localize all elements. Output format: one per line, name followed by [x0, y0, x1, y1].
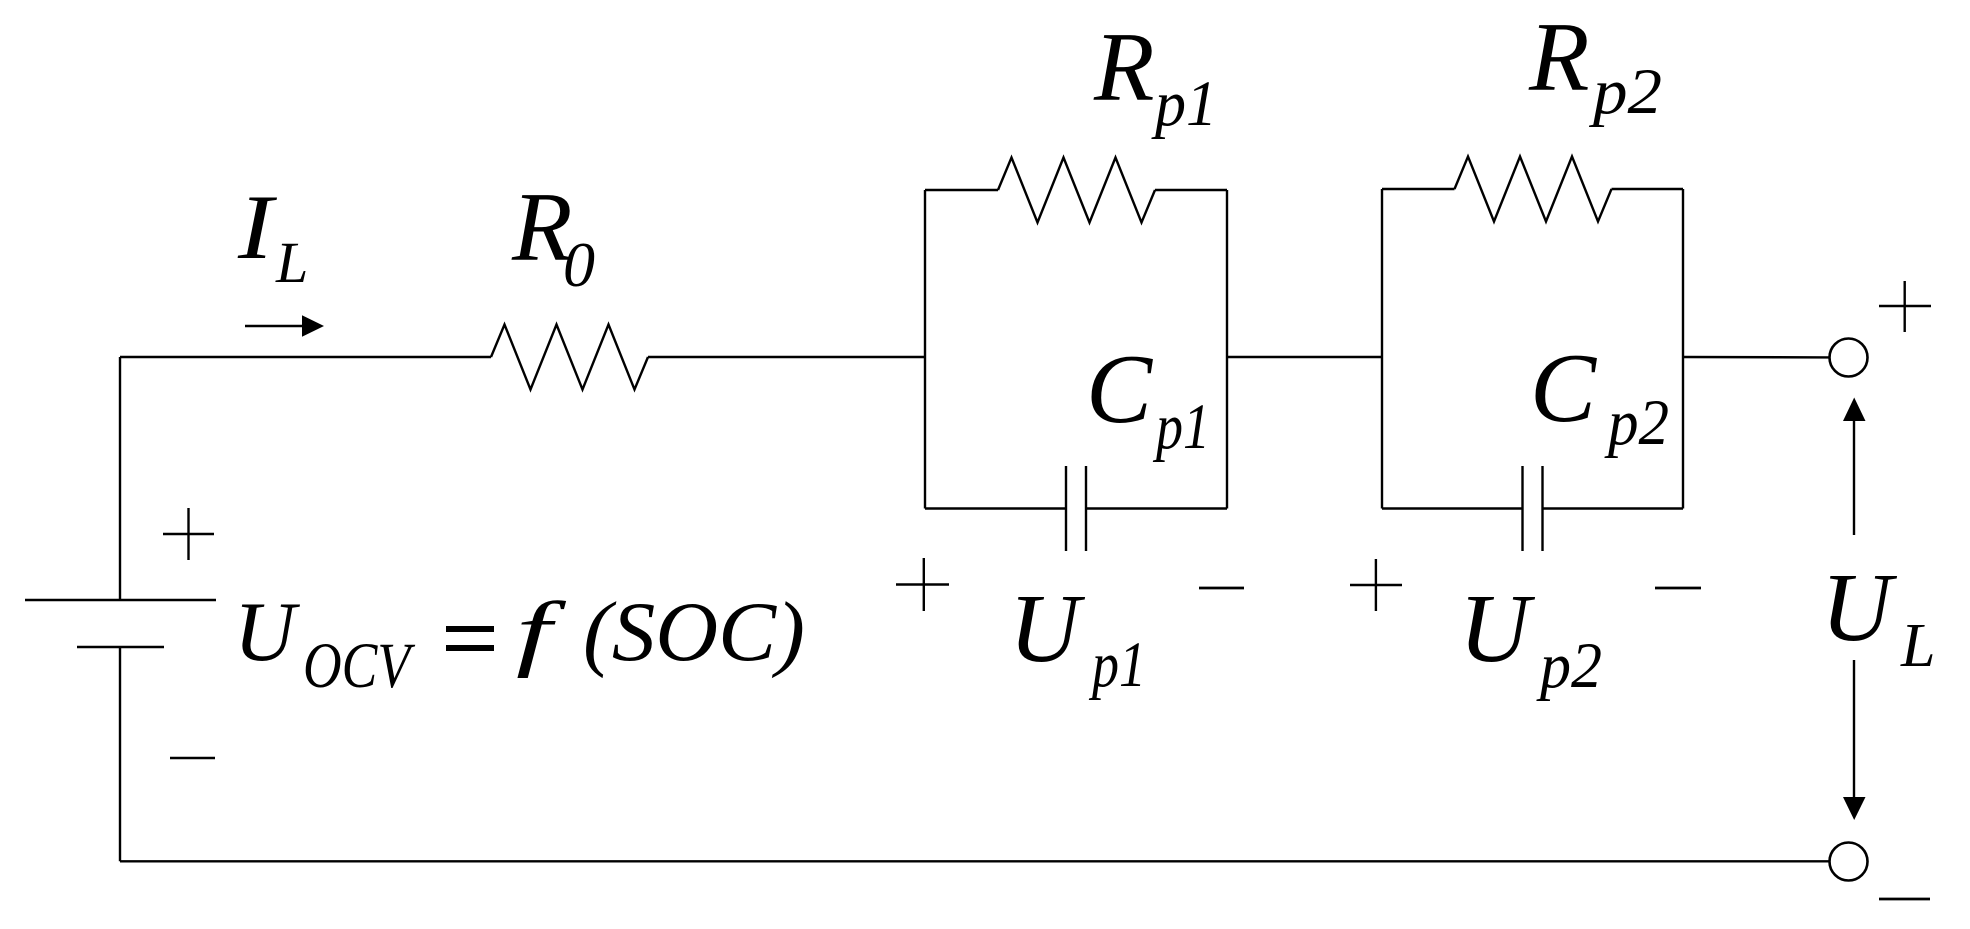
- wire: RC box 2 to positive output terminal: [1683, 356, 1830, 359]
- svg-text:(SOC): (SOC): [583, 585, 805, 679]
- svg-text:p2: p2: [1604, 387, 1669, 459]
- svg-text:p1: p1: [1089, 629, 1146, 701]
- svg-text:R: R: [1528, 3, 1589, 112]
- label Up1: [1009, 575, 1146, 701]
- label UOCV = f(SOC): [234, 585, 805, 702]
- svg-text:L: L: [1900, 612, 1935, 680]
- svg-text:U: U: [1009, 575, 1086, 683]
- UL voltage arrow up head: [1843, 398, 1866, 422]
- svg-text:U: U: [1821, 554, 1898, 662]
- svg-text:U: U: [1459, 575, 1536, 683]
- wire: battery - plate down to bottom rail: [119, 647, 121, 861]
- svg-text:p1: p1: [1153, 391, 1210, 463]
- UL voltage arrow down head: [1843, 797, 1866, 820]
- capacitor Cp1 right plate: [1085, 466, 1087, 551]
- label Cp2: [1530, 334, 1669, 459]
- UL voltage arrow down shaft: [1853, 660, 1855, 798]
- resistor R0 zigzag: [491, 325, 648, 390]
- label UL: [1821, 554, 1935, 680]
- wire: R0 to RC box 1: [648, 356, 925, 358]
- label R0: [511, 173, 595, 300]
- svg-text:p2: p2: [1536, 630, 1602, 702]
- label Up2: [1459, 575, 1602, 702]
- plus sign of Up2: [1350, 559, 1402, 611]
- svg-text:f: f: [516, 585, 567, 679]
- wire: top horizontal from battery corner to R0: [120, 356, 491, 358]
- label Rp2: [1528, 3, 1662, 128]
- svg-text:I: I: [237, 177, 277, 279]
- current arrow IL head: [302, 315, 324, 337]
- svg-text:R: R: [1093, 13, 1154, 122]
- svg-text:U: U: [234, 585, 300, 679]
- capacitor Cp2 right plate: [1541, 466, 1543, 551]
- plus sign at positive terminal: [1879, 281, 1931, 332]
- RC box 2 left edge wire: [1381, 189, 1383, 509]
- wire: RC box 1 to RC box 2: [1227, 356, 1382, 358]
- resistor Rp2 zigzag: [1455, 157, 1612, 222]
- svg-text:C: C: [1086, 335, 1153, 444]
- battery negative short plate: [77, 646, 164, 648]
- RC box 1 left edge wire: [924, 190, 926, 509]
- RC box 2 bottom edge wire, right segment: [1543, 507, 1684, 509]
- label Cp1: [1086, 335, 1210, 463]
- resistor Rp1 zigzag: [998, 158, 1155, 223]
- RC box 2 top edge wire, right segment: [1612, 188, 1684, 190]
- capacitor Cp2 left plate: [1521, 466, 1523, 551]
- svg-text:p2: p2: [1589, 56, 1662, 128]
- RC box 2 right edge wire: [1682, 189, 1684, 509]
- svg-text:0: 0: [563, 229, 595, 300]
- minus sign at negative terminal: [1879, 898, 1930, 901]
- minus sign of Up1: [1199, 587, 1244, 590]
- RC box 1 top edge wire, left segment: [925, 189, 998, 191]
- RC box 1 right edge wire: [1226, 190, 1228, 509]
- wire: left vertical from top wire down to battery + plate: [119, 357, 121, 600]
- battery positive long plate: [25, 599, 216, 601]
- positive output terminal circle: [1830, 339, 1868, 377]
- svg-text:C: C: [1530, 334, 1597, 443]
- wire: bottom return rail to negative output terminal: [120, 860, 1829, 862]
- svg-text:L: L: [275, 230, 308, 295]
- RC box 1 bottom edge wire, right segment: [1086, 507, 1227, 509]
- UL voltage arrow up shaft: [1853, 420, 1855, 535]
- RC box 1 top edge wire, right segment: [1155, 189, 1227, 191]
- capacitor Cp1 left plate: [1065, 466, 1067, 551]
- svg-text:p1: p1: [1151, 68, 1217, 140]
- RC box 2 top edge wire, left segment: [1382, 188, 1455, 190]
- plus sign of Up1: [896, 558, 949, 611]
- label Rp1: [1093, 13, 1217, 140]
- minus sign at battery: [170, 757, 215, 759]
- plus sign at battery: [163, 508, 214, 560]
- label IL: [237, 177, 308, 295]
- RC box 2 bottom edge wire, left segment: [1382, 507, 1523, 509]
- negative output terminal circle: [1830, 843, 1868, 881]
- minus sign of Up2: [1655, 587, 1701, 590]
- current arrow IL shaft: [245, 325, 303, 328]
- svg-text:OCV: OCV: [303, 630, 415, 702]
- RC box 1 bottom edge wire, left segment: [925, 507, 1066, 509]
